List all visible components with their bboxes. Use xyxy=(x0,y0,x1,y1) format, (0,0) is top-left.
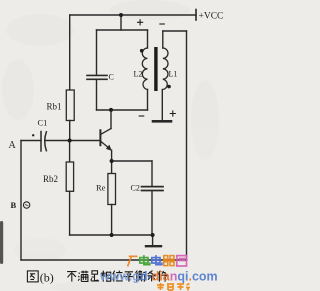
transistor Q emitter arrowhead xyxy=(106,145,112,151)
inductor L1 coil xyxy=(163,48,168,90)
transistor Q base bar xyxy=(99,130,101,145)
tank left wire upper xyxy=(96,30,98,75)
node dot tank stub on rail xyxy=(119,13,123,17)
phase dot L1 xyxy=(167,85,171,89)
capacitor C1 input wire from A xyxy=(21,140,41,142)
ground bar xyxy=(146,245,161,247)
caption 图 glyph xyxy=(27,271,38,282)
watermark row1 网 glyph magenta xyxy=(177,256,187,266)
svg-text:Rb2: Rb2 xyxy=(43,174,58,184)
resistor Rb2 body xyxy=(66,162,73,191)
wire left side A to B to bottom xyxy=(20,141,22,261)
node dot collector tank tap xyxy=(109,108,113,112)
caption 平 glyph xyxy=(124,272,134,282)
capacitor C2 top wire xyxy=(151,161,153,186)
resistor Rb2 top wire xyxy=(69,141,71,163)
transistor Q collector wire xyxy=(110,110,112,129)
capacitor C plates xyxy=(87,74,107,76)
caption 满 glyph xyxy=(78,271,88,282)
svg-text:C1: C1 xyxy=(38,118,48,128)
transistor Q emitter diagonal xyxy=(101,141,111,149)
inductor L2 bottom lead xyxy=(147,90,149,111)
emitter node wire to C2 xyxy=(112,160,152,162)
bottom rail 1 xyxy=(70,234,153,236)
watermark row2 www.gd-dianqi.com xyxy=(99,270,218,284)
phase dot L2 xyxy=(140,49,144,53)
paper background xyxy=(0,0,224,291)
left edge scan smudge xyxy=(0,221,3,264)
label + top of L2 xyxy=(137,19,143,25)
resistor Re bottom wire xyxy=(111,205,113,236)
svg-text:C: C xyxy=(109,73,114,82)
source circle at B xyxy=(23,202,29,208)
capacitor C2 plates xyxy=(142,186,164,188)
svg-text:L1: L1 xyxy=(169,70,178,79)
base wire xyxy=(46,140,100,142)
watermark row1 器 glyph orange xyxy=(163,256,175,266)
resistor Re top wire xyxy=(111,161,113,174)
label - top of L1 xyxy=(159,23,165,25)
capacitor C1 straight plate xyxy=(40,132,42,152)
caption 件 glyph xyxy=(158,271,168,282)
caption 相 glyph xyxy=(101,271,111,282)
svg-text:C2: C2 xyxy=(131,184,140,193)
caption 不 glyph xyxy=(67,272,76,282)
label - bottom of L2 xyxy=(139,115,145,117)
transformer core xyxy=(154,47,157,91)
svg-text:(b): (b) xyxy=(40,271,54,285)
wire top VCC rail xyxy=(70,14,196,16)
svg-text:Re: Re xyxy=(96,183,106,193)
watermark row1 广 glyph xyxy=(128,256,138,266)
watermark row1 电 glyph green xyxy=(140,255,150,265)
inductor L1 top lead xyxy=(162,31,164,48)
tank left wire lower xyxy=(96,80,98,111)
transistor Q emitter wire xyxy=(111,150,113,161)
resistor Rb2 bottom wire xyxy=(69,191,71,235)
inductor L1 bottom lead xyxy=(161,90,163,121)
resistor Re body xyxy=(108,174,116,205)
caption 位 glyph xyxy=(113,271,123,282)
node dot Re bottom xyxy=(110,233,114,237)
svg-text:L2: L2 xyxy=(134,70,143,79)
inductor L2 coil xyxy=(142,48,147,90)
svg-text:A: A xyxy=(9,140,17,151)
resistor Rb1 body xyxy=(66,90,74,121)
inductor L2 top lead xyxy=(147,30,149,48)
VCC terminal tick xyxy=(195,10,197,21)
tank top wire xyxy=(97,29,148,31)
inductor L1 top wire xyxy=(163,30,187,32)
tank bottom wire xyxy=(97,109,148,111)
capacitor C1 curved plate xyxy=(45,132,47,151)
node dot base xyxy=(68,139,72,143)
bottom rail 2 xyxy=(21,259,187,261)
ground stub xyxy=(152,235,154,246)
caption 衡 glyph xyxy=(136,271,146,282)
svg-text:www.gd-dianqi.com: www.gd-dianqi.com xyxy=(99,270,218,284)
wire stub rail to tank top xyxy=(120,15,122,30)
caption 足 glyph xyxy=(91,271,99,281)
caption 条 glyph xyxy=(148,271,156,282)
resistor Rb1 bottom wire xyxy=(69,121,71,141)
node dot C2 bottom ground xyxy=(151,233,155,237)
node dot emitter xyxy=(110,159,114,163)
watermark row3 orange glyph blobs xyxy=(157,283,190,291)
capacitor C2 bottom wire xyxy=(151,191,153,235)
resistor Rb1 top wire xyxy=(69,15,71,90)
svg-text:Rb1: Rb1 xyxy=(47,102,62,112)
label + bottom of L1 xyxy=(170,110,176,116)
transistor Q collector diagonal xyxy=(101,129,111,135)
svg-text:+VCC: +VCC xyxy=(199,11,224,21)
ground bar under L1 xyxy=(153,120,171,123)
wire right side from L1 top node down xyxy=(186,31,188,260)
svg-text:B: B xyxy=(11,200,17,210)
tilde inside source circle xyxy=(25,205,28,206)
watermark row1 电 glyph blue xyxy=(152,255,162,265)
artifact dot near C1 xyxy=(32,134,34,136)
